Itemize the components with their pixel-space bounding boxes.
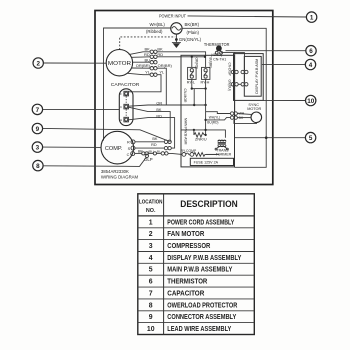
leader from callout 9 to connector — [43, 128, 170, 141]
power input AC source symbol — [171, 23, 182, 34]
connector CN-TH1 pins — [215, 51, 222, 54]
relay RY-H — [201, 67, 210, 84]
OLP leader and label — [144, 154, 153, 162]
wire relay bottoms join — [191, 79, 207, 89]
svg-text:COMPRESSOR: COMPRESSOR — [167, 243, 210, 250]
ground stem and junction — [175, 34, 178, 42]
leader from callout 5 through transformer wire — [235, 136, 306, 139]
wire ZNR feed — [181, 129, 225, 138]
callout 2 FAN MOTOR — [33, 58, 43, 68]
callout 1 POWER CORD ASSEMBLY — [306, 12, 316, 22]
svg-text:5: 5 — [149, 267, 153, 274]
wire C through OLP to connector — [135, 152, 162, 155]
connector pair OR(BR) — [150, 67, 157, 70]
wire fuse output — [206, 153, 218, 155]
wire WH from plug to left rail — [104, 28, 171, 141]
leader from callout 8 to OLP — [43, 157, 146, 166]
connector pair CN-DISP top right — [241, 70, 248, 73]
wire to sync WH — [206, 112, 231, 114]
transformer T — [215, 140, 228, 150]
capacitor terminal letters — [120, 92, 122, 122]
capacitor terminal F — [124, 91, 129, 96]
wire BK motor to RY-H — [157, 52, 206, 68]
table column divider — [163, 194, 165, 335]
connector pair CN-DISP bottom left — [231, 83, 238, 86]
capacitor C body — [119, 89, 133, 126]
display P.W.B outer box — [234, 54, 264, 101]
svg-text:CAPACITOR: CAPACITOR — [167, 291, 204, 298]
svg-text:DISPLAY P.W.B ASSEMBLY: DISPLAY P.W.B ASSEMBLY — [167, 255, 241, 262]
varistor ZNR/U — [194, 130, 207, 142]
table header separator — [138, 215, 255, 217]
wire C to main pwb — [168, 153, 182, 154]
svg-text:2: 2 — [149, 231, 153, 238]
svg-text:CONNECTOR ASSEMBLY: CONNECTOR ASSEMBLY — [167, 314, 236, 321]
row descriptions — [167, 219, 241, 333]
row numbers — [147, 219, 155, 333]
wire BK capacitor to comp R — [129, 107, 171, 142]
wire RD capacitor to comp S — [129, 118, 175, 149]
ground symbol — [172, 43, 181, 48]
wire OR capacitor to main pwb — [129, 104, 207, 106]
leader from callout 3 to comp — [43, 146, 102, 148]
svg-text:1: 1 — [149, 219, 153, 226]
svg-text:LOCATION: LOCATION — [139, 199, 163, 205]
dashed ground wire from fan motor — [120, 37, 176, 50]
svg-text:OWERLOAD PROTECTOR: OWERLOAD PROTECTOR — [167, 302, 237, 309]
wire link bottom pairs — [238, 83, 241, 85]
svg-text:FAN MOTOR: FAN MOTOR — [167, 231, 204, 238]
wire to sync BK — [204, 118, 230, 122]
comp terminal S — [128, 146, 135, 151]
wire BK from plug to right rail — [182, 28, 266, 167]
fan motor M — [106, 50, 132, 76]
wire sync bottom wrap — [234, 119, 257, 123]
callout 10 LEAD WIRE ASSEMBLY — [306, 95, 316, 105]
callout 5 MAIN PWB — [305, 132, 315, 142]
wire CN-DISP right drop — [244, 52, 246, 82]
table row lines — [138, 228, 255, 323]
parts table frame — [138, 194, 255, 335]
leader from callout 10 — [263, 99, 305, 101]
schematic outer frame — [95, 11, 273, 185]
capacitor terminal H — [124, 117, 129, 122]
callout 9 CONNECTOR ASSEMBLY — [32, 123, 42, 133]
wire main bus down — [205, 89, 207, 135]
svg-text:MAIN P.W.B ASSEMBLY: MAIN P.W.B ASSEMBLY — [167, 267, 232, 274]
callout 8 OVERLOAD PROTECTOR — [33, 160, 43, 170]
svg-text:10: 10 — [147, 326, 155, 333]
capacitor internal dotted link — [125, 96, 127, 117]
connector pair sync BK — [230, 116, 237, 119]
leader from callout 2 to motor — [43, 62, 106, 64]
leader to callout 1 — [188, 16, 307, 17]
connector pair CN-DISP bottom right — [241, 83, 248, 86]
label (BL) — [148, 149, 161, 153]
leader from callout 6 to thermistor — [226, 50, 306, 52]
svg-text:9: 9 — [149, 314, 153, 321]
svg-text:NO.: NO. — [146, 208, 156, 214]
connector pair comp C — [161, 152, 168, 155]
header LOCATION NO. — [139, 199, 163, 214]
connector pair sync WH — [230, 112, 237, 115]
relay RY-L — [187, 67, 196, 84]
connector pair CN-DISP top left — [231, 70, 238, 73]
connector pair YL — [150, 73, 157, 76]
svg-text:THERMISTOR: THERMISTOR — [167, 279, 207, 286]
connector pair BU — [150, 61, 157, 64]
fuse label box — [190, 158, 233, 165]
svg-text:8: 8 — [149, 302, 153, 309]
relay RY-COMP contacts — [181, 149, 197, 156]
main P.W.B ASM box — [181, 55, 235, 167]
callout 4 DISPLAY PWB — [305, 59, 315, 69]
wire S to connector — [135, 147, 164, 149]
connector pair comp S — [164, 146, 171, 149]
label TRANS FORMER — [216, 149, 232, 157]
svg-text:6: 6 — [149, 279, 153, 286]
motor wire labels right — [157, 47, 172, 75]
svg-text:POWER CORD ASSEMBLY: POWER CORD ASSEMBLY — [167, 219, 234, 226]
wire sync BK — [237, 117, 251, 119]
wire R to connector — [135, 141, 164, 143]
svg-text:3: 3 — [149, 243, 153, 250]
svg-text:4: 4 — [149, 255, 153, 262]
capacitor terminal C — [124, 104, 129, 109]
callout 3 COMPRESSOR — [32, 142, 42, 152]
connector pair comp R — [164, 140, 171, 143]
wire node to OR junction — [193, 89, 195, 105]
leader from callout 4 to display box — [262, 63, 305, 65]
wire YL motor to capacitor top — [129, 75, 161, 92]
wire OR(BR) motor down to capacitor OR wire — [157, 68, 166, 105]
wire sync WH — [237, 113, 251, 116]
comp terminal R — [127, 140, 135, 145]
wire CN-DISP left drop — [234, 52, 236, 111]
fuse F — [194, 153, 220, 157]
wire RD motor to RY-L — [157, 56, 206, 68]
motor wire labels left — [136, 47, 151, 75]
display P.W.B inner box — [244, 56, 261, 96]
svg-text:7: 7 — [149, 291, 153, 298]
sync motor SM — [247, 103, 261, 123]
motor lead wires to connector — [128, 52, 151, 75]
comp terminal C — [127, 152, 135, 157]
leader from callout 7 to capacitor — [43, 108, 120, 110]
thermistor TH bead — [217, 46, 222, 52]
compressor COMP — [101, 131, 134, 164]
wire thermistor to display connector — [221, 51, 244, 53]
svg-text:DESCRIPTION: DESCRIPTION — [180, 199, 238, 209]
callout 6 THERMISTOR — [306, 46, 316, 56]
connector pair RD — [150, 55, 157, 58]
svg-text:LEAD WIRE ASSEMBLY: LEAD WIRE ASSEMBLY — [167, 326, 231, 333]
callout 7 CAPACITOR — [32, 104, 42, 114]
connector pair BK — [150, 50, 157, 53]
